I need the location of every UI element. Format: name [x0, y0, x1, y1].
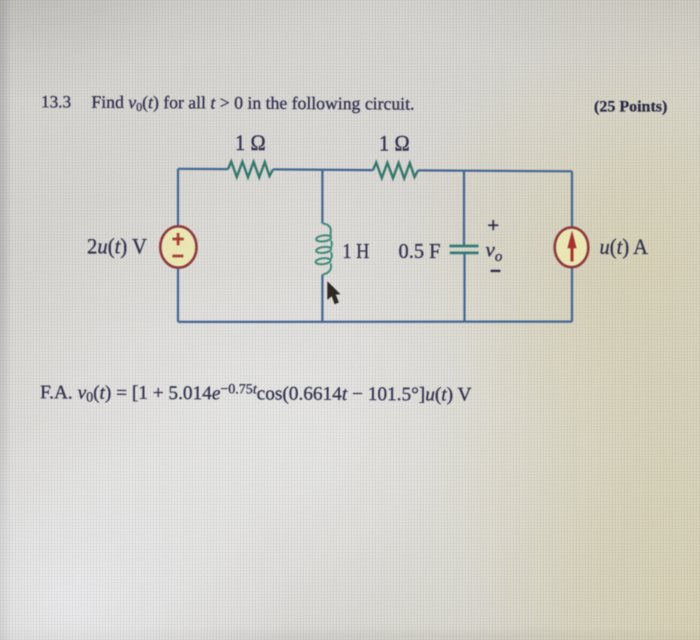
problem statement text — [91, 92, 414, 116]
wire top-left segment — [178, 168, 228, 171]
wire top-right segment — [418, 169, 572, 172]
capacitor voltage minus — [491, 270, 501, 272]
resistor 1Ω left zigzag — [228, 162, 273, 178]
current source arrow — [571, 247, 574, 262]
wire top-middle segment — [273, 168, 373, 171]
capacitor branch wire upper — [463, 171, 465, 246]
wire bottom horizontal — [178, 321, 572, 323]
wire left vertical — [177, 169, 179, 322]
mouse cursor — [328, 282, 340, 304]
voltage source V1 2u(t) circle — [160, 226, 196, 267]
problem number 13.3 — [41, 92, 71, 111]
inductor L 1H coil — [315, 224, 332, 275]
capacitor branch wire lower — [463, 253, 465, 322]
voltage source plus sign — [172, 233, 183, 245]
final answer formula — [40, 381, 472, 407]
voltage source minus sign — [172, 255, 183, 258]
current source I1 u(t) circle — [555, 227, 589, 267]
resistor 1Ω right zigzag — [373, 163, 418, 179]
wire right vertical — [571, 171, 573, 321]
capacitor C 0.5F plates — [449, 245, 478, 248]
wire middle branch (inductor branch) — [321, 170, 323, 322]
